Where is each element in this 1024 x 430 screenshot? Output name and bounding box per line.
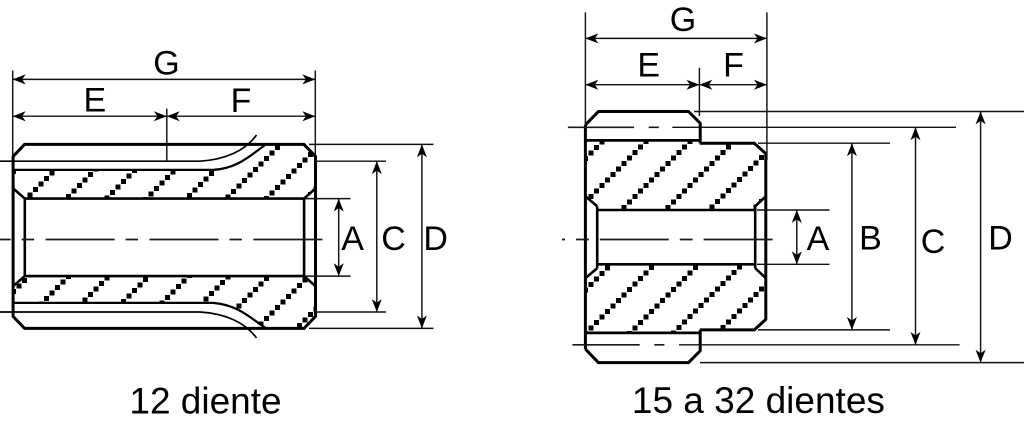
bore outline right drawing xyxy=(585,196,765,278)
svg-text:A: A xyxy=(341,220,364,258)
bore outline xyxy=(13,188,315,286)
tooth tip bottom extension line to D xyxy=(700,362,1024,364)
dimension A right: line and arrows xyxy=(792,210,802,264)
dimension D left: line and arrows xyxy=(417,144,427,328)
tooth root line top xyxy=(0,135,257,161)
tooth bottom tab outline xyxy=(585,330,700,363)
tooth root line bottom xyxy=(0,312,257,338)
hatch section bottom band, 15-32 teeth gear xyxy=(583,259,770,336)
svg-text:C: C xyxy=(921,223,946,261)
svg-text:G: G xyxy=(153,45,179,83)
gear body outline (12 diente section) xyxy=(13,144,315,328)
pitch line bottom extension to C xyxy=(679,344,960,346)
pitch line bottom (dash-dot through tooth) xyxy=(572,344,664,346)
E/F boundary extension line left xyxy=(166,109,168,162)
dimension D left: extension lines xyxy=(309,144,434,328)
dimension F left: line and arrows xyxy=(167,111,315,121)
dimension B right: line and arrows xyxy=(847,143,857,330)
dimension C left: line and arrows xyxy=(372,161,382,312)
dimension D right: line and arrows xyxy=(976,112,986,363)
gear left face line xyxy=(584,125,587,349)
dimension A left: extension lines xyxy=(304,199,350,277)
pitch line top extension to C xyxy=(672,126,956,128)
svg-text:D: D xyxy=(423,220,448,258)
svg-text:G: G xyxy=(670,1,696,39)
hub outline xyxy=(700,143,766,330)
hatch boundary line bottom xyxy=(13,303,265,328)
dimension G left: extension lines xyxy=(13,71,316,158)
tooth tip top extension line to D xyxy=(694,111,1024,113)
hub top extension line to B xyxy=(758,142,890,144)
hatch section top band, 15-32 teeth gear xyxy=(583,139,770,215)
svg-text:F: F xyxy=(231,82,252,120)
svg-text:A: A xyxy=(807,220,830,258)
dimension A left: line and arrows xyxy=(334,199,344,277)
hatch section top band, 12-tooth gear xyxy=(11,140,319,204)
E/F boundary extension line right xyxy=(698,68,700,116)
pitch line top (dash-dot through tooth) xyxy=(568,126,659,128)
dimension G right: line and arrows xyxy=(585,33,767,43)
dimension C right: line and arrows xyxy=(911,127,921,344)
svg-text:E: E xyxy=(84,82,107,120)
hatch boundary line top xyxy=(13,145,265,170)
bore bottom extension line to A xyxy=(757,263,830,265)
root lines right drawing xyxy=(585,140,699,333)
dimension F right: line and arrows xyxy=(699,80,767,90)
hatch section bottom band, 12-tooth gear xyxy=(11,272,319,334)
svg-text:C: C xyxy=(381,220,406,258)
dimension G right: extension lines xyxy=(585,12,767,160)
svg-text:F: F xyxy=(723,47,744,85)
dimension G left: line and arrows xyxy=(13,74,316,84)
svg-text:E: E xyxy=(637,47,660,85)
svg-text:B: B xyxy=(859,220,882,258)
centerline right drawing xyxy=(562,239,775,241)
centerline left drawing xyxy=(0,239,323,241)
svg-text:D: D xyxy=(988,220,1013,258)
dimension E right: line and arrows xyxy=(585,80,699,90)
dimension C left: extension lines xyxy=(316,161,387,312)
dimension E left: line and arrows xyxy=(13,111,167,121)
bore top extension line to A xyxy=(757,209,830,211)
hub bottom extension line to B xyxy=(758,329,890,331)
tooth top tab outline xyxy=(585,112,700,144)
svg-text:12 diente: 12 diente xyxy=(129,381,281,422)
svg-text:15 a 32 dientes: 15 a 32 dientes xyxy=(632,380,885,421)
